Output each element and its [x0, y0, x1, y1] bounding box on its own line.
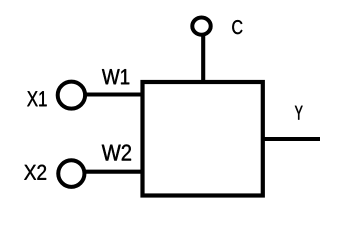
label Y	[295, 106, 303, 120]
label C	[232, 20, 242, 34]
node X1 terminal circle	[58, 82, 85, 109]
wire Y output	[265, 137, 321, 141]
wire W2	[84, 170, 141, 174]
node X2 terminal circle	[58, 160, 84, 187]
wire C stem	[201, 35, 205, 80]
label W2	[102, 145, 131, 161]
label X1	[27, 91, 46, 106]
wire W1	[84, 92, 141, 96]
label X2	[24, 165, 46, 180]
block U1	[143, 82, 263, 196]
label W1	[102, 69, 129, 84]
node C terminal circle	[192, 18, 210, 35]
